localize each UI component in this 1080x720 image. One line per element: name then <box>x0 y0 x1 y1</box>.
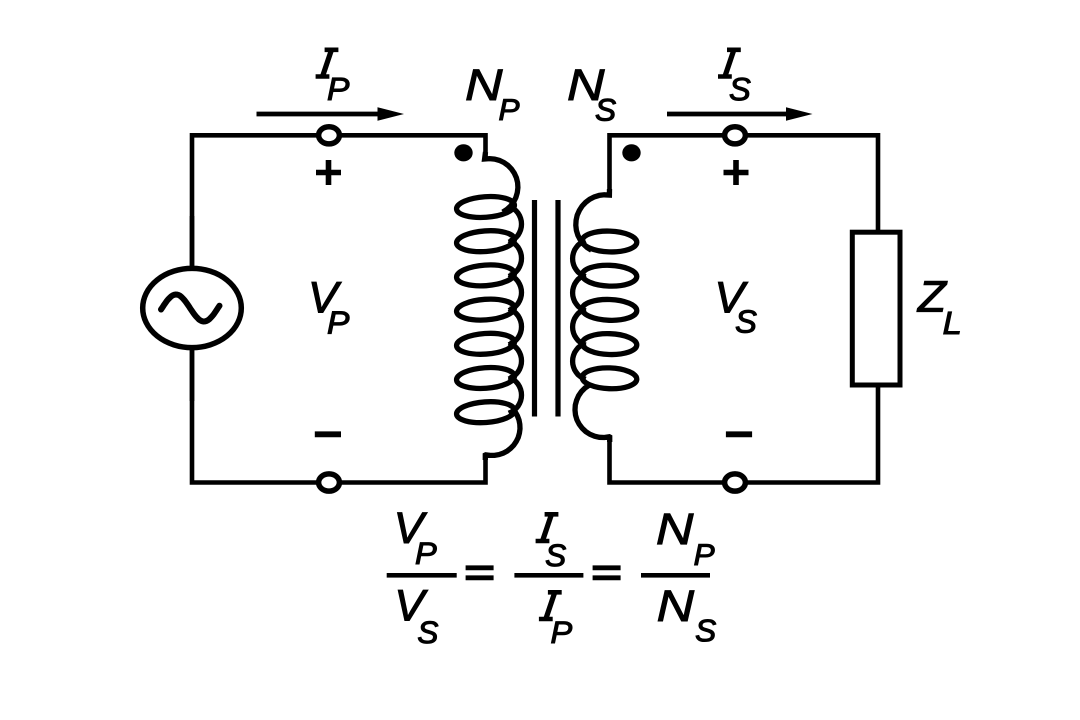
label IS <box>718 50 741 77</box>
label VS <box>718 282 748 312</box>
formula IP denominator <box>539 592 562 619</box>
formula NP subscript <box>695 544 715 565</box>
label VP subscript P <box>328 312 349 334</box>
inductor L1 primary winding <box>456 152 522 460</box>
polarity dot secondary <box>622 144 640 161</box>
terminal node primary bottom <box>319 474 340 491</box>
polarity dot primary <box>454 144 472 161</box>
formula VP numerator <box>398 513 428 543</box>
formula NS subscript <box>696 620 716 642</box>
formula VS subscript <box>418 621 438 643</box>
label NP subscript P <box>499 99 519 120</box>
AC source V1 <box>143 268 242 347</box>
formula VS denominator <box>398 590 428 620</box>
equals sign 1 <box>466 568 494 578</box>
formula IP subscript <box>552 622 573 643</box>
formula VP subscript <box>416 543 437 564</box>
label ZL <box>917 281 947 311</box>
plus sign primary <box>316 160 341 185</box>
formula IS numerator <box>536 514 559 541</box>
current arrow IS <box>667 112 791 117</box>
inductor L2 secondary winding <box>573 189 638 442</box>
label NP <box>467 70 503 100</box>
label NS <box>569 70 605 100</box>
formula NS denominator <box>658 591 694 621</box>
wire: primary loop bottom <box>192 216 486 483</box>
label ZL subscript L <box>944 312 960 334</box>
transformer core <box>535 200 559 417</box>
formula fraction bar 3 <box>641 573 710 578</box>
label IP <box>316 50 339 77</box>
wire: primary loop top <box>192 135 486 401</box>
load impedance ZL <box>852 232 900 385</box>
current arrow IP <box>257 112 384 117</box>
minus sign secondary <box>726 431 752 437</box>
plus sign secondary <box>724 160 749 185</box>
wire: secondary loop bottom <box>610 385 879 483</box>
formula fraction bar 1 <box>387 573 457 578</box>
wire: secondary loop top <box>610 135 879 232</box>
terminal node primary top <box>319 127 340 144</box>
label NS subscript S <box>596 99 616 121</box>
label IP subscript P <box>328 78 349 100</box>
formula fraction bar 2 <box>514 573 583 578</box>
minus sign primary <box>315 431 341 437</box>
label VS subscript S <box>736 310 757 333</box>
terminal node secondary top <box>725 127 746 144</box>
formula NP numerator <box>658 514 694 544</box>
equals sign 2 <box>593 568 621 578</box>
label VP <box>312 282 342 312</box>
formula IS subscript <box>546 544 566 566</box>
terminal node secondary bottom <box>725 474 746 491</box>
label IS subscript S <box>730 78 751 101</box>
